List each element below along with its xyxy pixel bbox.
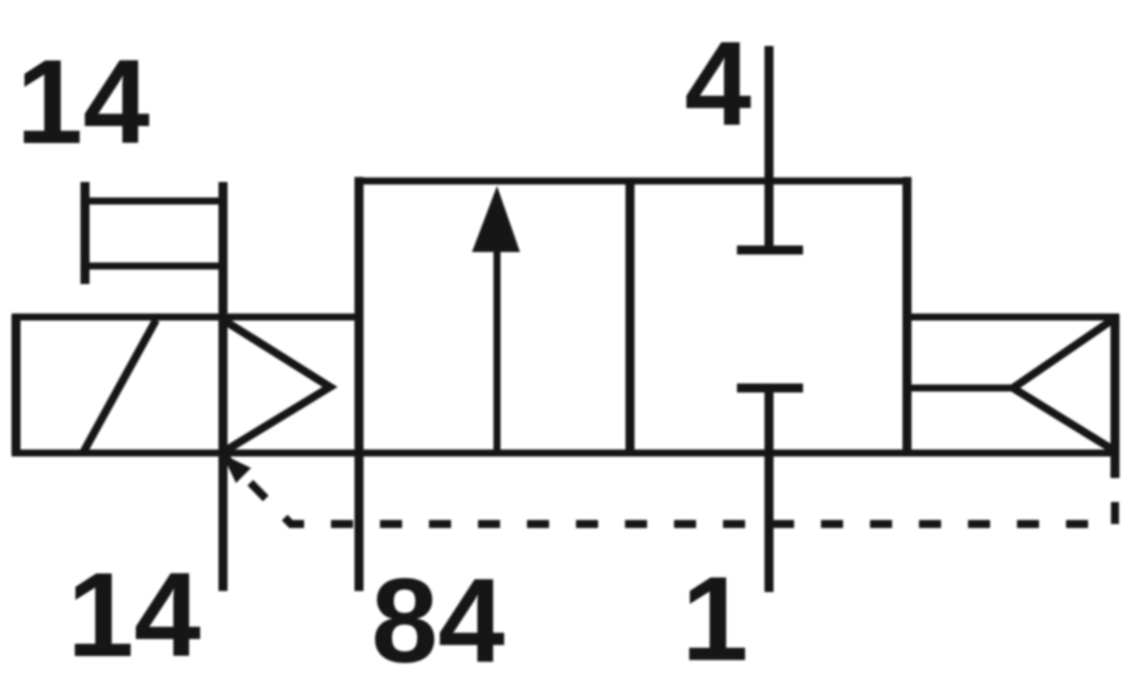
pilot return right edge [1111,314,1120,478]
svg-text:4: 4 [685,17,752,151]
blocked port 1 T bar [737,384,803,393]
valve body right edge [903,177,912,456]
solenoid coil left edge [12,314,21,456]
svg-text:84: 84 [371,554,505,688]
flow arrow shaft [494,250,501,453]
pilot line 14 vertical wire [219,182,228,591]
solenoid coil top edge [12,314,359,321]
pilot symbol 14 bottom bar [85,263,223,270]
solenoid coil diagonal [84,320,156,451]
pilot return mid wire [907,385,1016,392]
bottom edge wire [12,450,1119,457]
pilot return top edge [907,314,1119,321]
pilot symbol 14 left tick [81,182,90,284]
svg-text:1: 1 [682,552,749,686]
pilot symbol 14 top bar [85,198,223,205]
blocked port 4 T bar [737,246,803,255]
pilot control dashed line [224,456,1115,524]
flow arrow head [472,186,520,252]
svg-text:14: 14 [67,548,201,682]
pilot return triangle [1013,318,1115,451]
port 4 wire [765,46,774,248]
pilot dashed line arrow head [222,454,251,483]
valve left edge / port 84 wire [355,177,364,591]
pilot actuator triangle [225,321,330,451]
svg-text:14: 14 [16,35,150,169]
valve body top edge [355,178,911,185]
valve body divider [626,181,635,453]
port 1 wire [765,392,774,592]
